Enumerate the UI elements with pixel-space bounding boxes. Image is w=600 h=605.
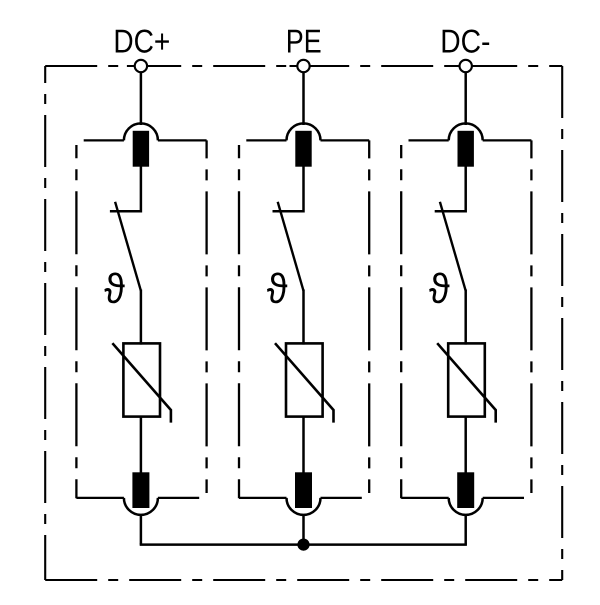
module 2 boundary right (dash-dot) [368, 140, 370, 493]
wire varistor to bottom contact, module 3 [464, 417, 467, 473]
plug-in socket line bottom, module 1 [76, 497, 199, 499]
wire blade to varistor, module 1 [140, 290, 143, 345]
varistor body, module 2 [286, 343, 323, 416]
plug-in socket line bottom, module 2 [239, 497, 362, 499]
wire from terminal DC+ to module 1 [140, 72, 143, 125]
terminal DC+ [135, 60, 147, 72]
wire from terminal PE to module 2 [302, 72, 305, 125]
wire contact block to disconnector, module 2 [273, 167, 304, 212]
bottom contact block, module 1 [132, 472, 149, 508]
enclosure border right (dash-dot) [561, 66, 563, 580]
plug-in socket arc bottom, module 2 [287, 498, 321, 515]
wire blade to varistor, module 2 [302, 290, 305, 345]
varistor body, module 3 [448, 343, 485, 416]
varistor body, module 1 [123, 343, 160, 416]
top contact block, module 2 [295, 131, 311, 167]
varistor diagonal stroke, module 2 [275, 343, 334, 422]
module 1 boundary right (dash-dot) [205, 140, 207, 493]
wire bottom contact to common bus, module 2 [302, 515, 305, 545]
wire from terminal DC- to module 3 [464, 72, 467, 125]
plug-in socket arc top, module 1 [124, 123, 158, 140]
border stub at terminal DC- [452, 65, 480, 67]
wire varistor to bottom contact, module 2 [302, 417, 305, 473]
theta (thermal) symbol, module 1 [104, 272, 124, 303]
node DC- label [443, 29, 490, 52]
terminal DC- [460, 60, 472, 72]
theta (thermal) symbol, module 3 [429, 272, 449, 303]
wire contact block to disconnector, module 3 [435, 167, 466, 212]
theta (thermal) symbol, module 2 [267, 272, 287, 303]
wire bottom contact to common bus, module 3 [464, 515, 467, 545]
varistor diagonal stroke, module 3 [437, 343, 496, 422]
top contact block, module 1 [133, 131, 149, 167]
module 3 boundary right (dash-dot) [530, 140, 532, 493]
common bus wire [140, 543, 467, 546]
plug-in socket arc bottom, module 3 [449, 498, 483, 515]
border stub at terminal PE [290, 65, 318, 67]
module 3 boundary left (dash-dot) [400, 145, 402, 498]
wire varistor to bottom contact, module 1 [140, 417, 143, 473]
plug-in socket line bottom, module 3 [401, 497, 524, 499]
enclosure border top (dash-dot) [45, 65, 562, 67]
enclosure border left (dash-dot) [44, 66, 46, 580]
terminal PE [297, 60, 309, 72]
node PE label [288, 30, 321, 53]
border stub at terminal DC+ [127, 65, 155, 67]
plug-in socket line top, module 2 [246, 139, 369, 141]
plug-in socket arc top, module 3 [449, 123, 483, 140]
thermal disconnector switch blade, module 3 [440, 202, 466, 291]
junction node (bus to PE branch) [297, 539, 309, 551]
varistor diagonal stroke, module 1 [112, 343, 170, 422]
plug-in socket arc bottom, module 1 [124, 498, 158, 515]
thermal disconnector switch blade, module 2 [278, 202, 304, 291]
enclosure border bottom (dash-dot) [45, 579, 562, 581]
bottom contact block, module 2 [295, 472, 312, 508]
wire bottom contact to common bus, module 1 [140, 515, 143, 545]
thermal disconnector switch blade, module 1 [115, 202, 141, 291]
wire blade to varistor, module 3 [464, 290, 467, 345]
plug-in socket line top, module 3 [409, 139, 532, 141]
plug-in socket line top, module 1 [84, 139, 207, 141]
node DC+ label [116, 29, 169, 52]
module 2 boundary left (dash-dot) [238, 145, 240, 498]
module 1 boundary left (dash-dot) [75, 145, 77, 498]
bottom contact block, module 3 [457, 472, 474, 508]
wire contact block to disconnector, module 1 [110, 167, 141, 212]
plug-in socket arc top, module 2 [287, 123, 321, 140]
top contact block, module 3 [458, 131, 474, 167]
